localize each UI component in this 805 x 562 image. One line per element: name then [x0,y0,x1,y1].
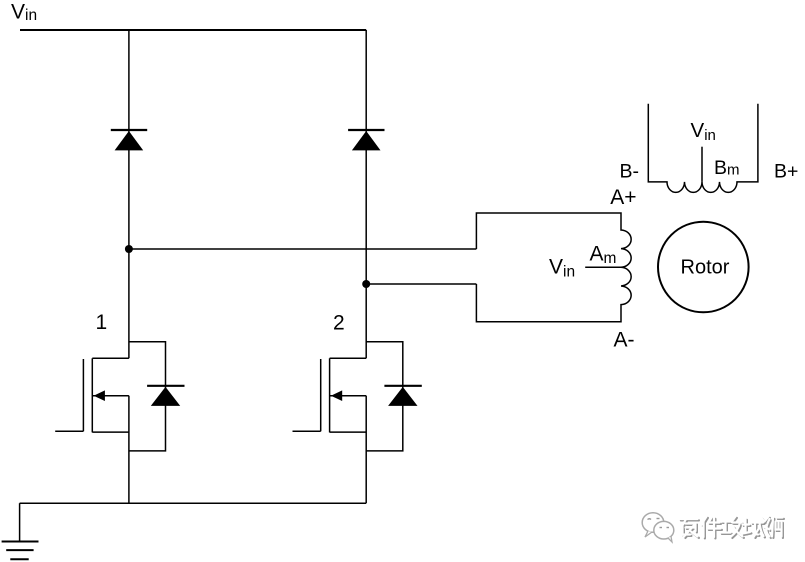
watermark text white pass [680,517,783,538]
wire B center tap [701,147,703,182]
svg-text:B+: B+ [774,161,798,183]
svg-text:B-: B- [620,161,640,183]
node dot phase A- [362,280,370,288]
svg-text:Vin: Vin [11,1,37,25]
body lead with arrow [92,395,129,397]
svg-text:A-: A- [614,329,635,352]
transistor Q1 (NMOS with body diode) [55,342,184,504]
wire drain column 2 [365,30,367,358]
wire A center tap [585,266,621,268]
svg-text:1: 1 [96,311,108,334]
diode D2 (freewheel, column 2) [348,130,384,150]
gate lead [55,430,83,432]
svg-text:Rotor: Rotor [681,257,730,279]
svg-text:2: 2 [333,311,345,334]
transistor Q2 (NMOS with body diode) [293,342,422,504]
source-to-rail wire [128,396,130,504]
wire bottom source rail [20,502,367,504]
svg-text:Am: Am [590,243,617,267]
wire drain column 1 [128,30,130,358]
svg-text:Bm: Bm [714,157,740,179]
diode D1 (freewheel, column 1) [111,130,147,150]
wire Vin top rail [20,29,366,31]
winding B (phase B with center tap) [648,104,758,193]
wire A- to winding [366,283,476,285]
svg-text:A+: A+ [610,186,636,209]
body diode branch wire [129,342,166,451]
watermark text shadow pass [681,518,784,539]
ground [2,503,39,559]
watermark logo (two chat bubbles) [642,513,674,542]
rotor circle [658,222,749,313]
gate line [82,359,84,431]
svg-text:Vin: Vin [549,255,575,280]
drain lead [92,357,129,359]
channel bar [91,358,93,432]
source lead [92,431,129,433]
svg-text:Vin: Vin [691,119,716,144]
wire A+ to winding [129,248,477,250]
node dot phase A+ [125,245,133,253]
winding A (phase A with center tap) [476,213,631,322]
body diode symbol [147,385,184,387]
